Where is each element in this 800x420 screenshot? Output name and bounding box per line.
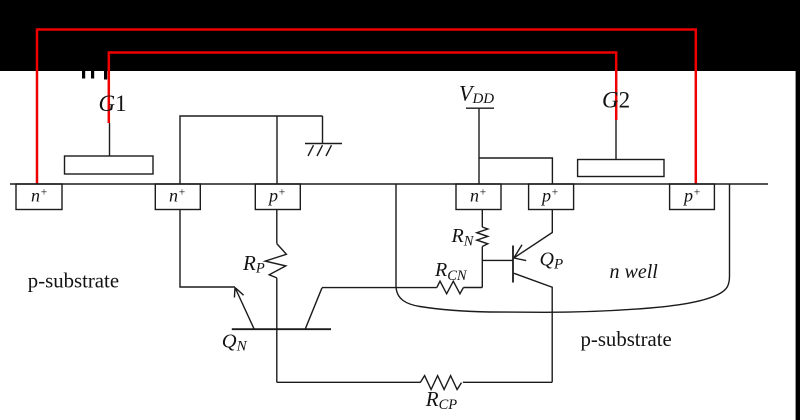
- wire: inner red loop G1 to G2: [109, 53, 616, 124]
- svg-text:n well: n well: [610, 261, 659, 283]
- ground symbol: [305, 144, 342, 157]
- svg-text:p-substrate: p-substrate: [581, 328, 672, 351]
- transistor QP base bar: [512, 246, 514, 283]
- wire: outer red loop n+ (left) to p+ (right): [37, 30, 696, 185]
- wire: p+ box 3 to RP: [276, 210, 278, 244]
- n+ diffusion box 2: [155, 184, 200, 210]
- tick marks (text remnants under banner): [82, 71, 107, 80]
- resistor RCP zigzag: [420, 376, 461, 390]
- transistor QP emitter with arrow: [514, 210, 553, 261]
- transistor QN base bar: [232, 328, 331, 330]
- wire: node to QP base: [482, 259, 513, 261]
- transistor QP collector: [514, 273, 552, 382]
- svg-text:p-substrate: p-substrate: [28, 270, 119, 293]
- wire: RCN to node: [463, 287, 482, 289]
- wire: QN base stem down to RCP: [276, 278, 278, 382]
- wire: drop to p+ box 3: [276, 116, 278, 184]
- p+ diffusion box 3: [255, 184, 300, 210]
- wire: RN down to RCN node: [481, 247, 483, 288]
- p+ diffusion box 5: [529, 184, 574, 210]
- wire: source bar over boxes 2,3: [180, 116, 323, 184]
- top black banner: [0, 0, 800, 71]
- transistor QN emitter with arrow: [234, 288, 254, 330]
- wire: drop to ground: [322, 116, 324, 144]
- svg-text:G2: G2: [602, 88, 630, 113]
- wire: RCP to QP collector: [463, 381, 552, 383]
- n+ diffusion box 1 (left): [16, 184, 62, 210]
- gate electrode G2: [578, 160, 664, 177]
- wire: VDD bar to p+ box 5: [479, 158, 552, 184]
- wire: VDD stem to n+ box 4: [478, 108, 480, 184]
- resistor RN zigzag: [477, 227, 488, 246]
- transistor QN collector: [305, 288, 322, 329]
- n+ diffusion box 4 (well contact): [456, 184, 501, 210]
- VDD underline: [466, 107, 494, 109]
- p+ diffusion box 6 (right): [670, 184, 715, 210]
- wire: QN base to RCP: [277, 381, 420, 383]
- svg-text:G1: G1: [99, 91, 127, 116]
- wire: n+ box 2 down to QN emitter: [180, 210, 235, 288]
- wire: n+ box 4 to RN: [481, 210, 483, 228]
- right black border strip: [796, 71, 800, 420]
- wire: G1 stem: [109, 123, 111, 156]
- resistor RCN zigzag: [437, 281, 464, 294]
- resistor RP zigzag: [265, 244, 286, 278]
- gate electrode G1: [65, 156, 154, 174]
- n-well boundary: [396, 184, 730, 312]
- substrate surface line: [10, 183, 768, 185]
- wire: QN collector to RCN: [322, 287, 437, 289]
- wire: G2 stem: [615, 120, 617, 160]
